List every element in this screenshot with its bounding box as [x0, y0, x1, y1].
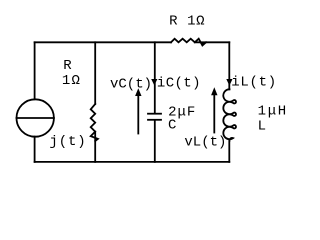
- svg-text:j(t): j(t): [49, 134, 86, 150]
- svg-text:vL(t): vL(t): [184, 135, 226, 151]
- svg-text:R: R: [63, 58, 72, 74]
- svg-text:L: L: [258, 119, 266, 135]
- svg-text:C: C: [168, 118, 176, 134]
- svg-text:iL(t): iL(t): [231, 75, 277, 91]
- svg-text:iC(t): iC(t): [157, 76, 201, 92]
- svg-text:vC(t): vC(t): [110, 77, 152, 93]
- svg-text:R 1Ω: R 1Ω: [169, 14, 205, 30]
- svg-text:1Ω: 1Ω: [62, 73, 81, 89]
- svg-text:1μH: 1μH: [258, 103, 288, 119]
